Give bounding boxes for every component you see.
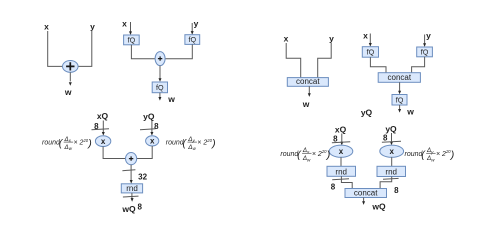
multiplier right	[146, 136, 159, 146]
wire x to concat	[286, 43, 301, 78]
svg-text:wQ: wQ	[371, 202, 386, 212]
multiplier right	[380, 145, 404, 157]
wire mult right to adder	[137, 146, 153, 159]
svg-text:rnd: rnd	[385, 168, 397, 177]
svg-text:8: 8	[137, 203, 142, 212]
svg-text:rnd: rnd	[126, 184, 138, 193]
wire adder to fQ out	[159, 66, 161, 80]
svg-text:w: w	[406, 107, 414, 117]
scale formula right	[166, 136, 216, 151]
wire x to fQ	[130, 22, 132, 33]
block fQ out	[392, 95, 407, 106]
svg-text:x: x	[44, 22, 49, 32]
wire mult right to rnd	[391, 157, 393, 166]
svg-text:concat: concat	[388, 73, 412, 82]
svg-text:fQ: fQ	[128, 35, 136, 44]
svg-text:y: y	[194, 19, 199, 29]
block fQ right	[417, 47, 433, 57]
svg-text:fQ: fQ	[396, 96, 404, 105]
svg-text:concat: concat	[296, 77, 320, 86]
svg-text:y: y	[329, 34, 334, 44]
wire y to concat	[318, 43, 332, 78]
block fQ out	[152, 82, 167, 93]
svg-text:wQ: wQ	[121, 204, 136, 214]
svg-text:xQ: xQ	[335, 125, 347, 135]
wire xQ to mult	[341, 134, 343, 144]
svg-text:fQ: fQ	[421, 48, 429, 57]
svg-text:yQ: yQ	[143, 112, 155, 122]
svg-text:8: 8	[154, 122, 159, 131]
wire xQ to mult	[102, 121, 104, 134]
wire rnd right to concat	[380, 177, 392, 189]
wire x to adder	[48, 31, 63, 66]
adder U1	[63, 61, 79, 73]
svg-text:x: x	[389, 147, 394, 156]
wire fQ right to adder	[165, 44, 192, 58]
svg-text:w: w	[167, 94, 175, 104]
scale formula left	[42, 136, 92, 151]
bus tick 32	[122, 170, 135, 171]
wire adder to w	[69, 72, 71, 81]
multiplier left	[329, 145, 353, 157]
adder U5	[126, 153, 137, 165]
svg-text:w: w	[302, 99, 310, 109]
bus tick	[92, 128, 110, 131]
wire fQ left to adder	[131, 45, 155, 59]
wire x to fQ	[369, 34, 371, 45]
svg-text:8: 8	[331, 182, 336, 191]
wire fQ right to concat	[412, 57, 425, 73]
wire mult left to rnd	[340, 157, 342, 166]
multiplier left	[95, 136, 110, 147]
svg-text:y: y	[90, 22, 95, 32]
wire fQ left to concat	[370, 57, 386, 72]
svg-text:8: 8	[383, 134, 388, 143]
bus tick	[332, 142, 350, 143]
svg-text:x: x	[284, 34, 289, 44]
block concat	[345, 189, 387, 198]
block rnd left	[327, 166, 356, 176]
wire y to fQ	[191, 23, 193, 33]
svg-text:xQ: xQ	[97, 111, 109, 121]
svg-text:y: y	[426, 31, 431, 41]
svg-text:x: x	[150, 137, 155, 146]
svg-text:yQ: yQ	[385, 124, 397, 134]
wire rnd left to concat	[341, 176, 352, 188]
svg-text:8: 8	[394, 186, 399, 195]
bus tick 8	[123, 195, 139, 198]
bus tick	[140, 128, 156, 131]
block concat	[378, 73, 420, 83]
scale formula left	[280, 147, 330, 162]
block rnd right	[377, 166, 406, 176]
adder U2	[155, 52, 165, 66]
svg-text:32: 32	[138, 173, 147, 182]
svg-text:fQ: fQ	[367, 48, 375, 57]
wire concat to wQ	[363, 198, 365, 203]
svg-text:fQ: fQ	[156, 83, 164, 92]
wire y to adder	[78, 31, 92, 66]
svg-text:x: x	[101, 137, 106, 146]
block fQ left	[362, 47, 378, 58]
wire fQ out to w	[399, 105, 401, 110]
block fQ left	[124, 35, 140, 45]
scale formula right	[405, 147, 455, 162]
block fQ right	[185, 35, 200, 45]
wire adder to rnd	[130, 165, 132, 182]
svg-text:rnd: rnd	[335, 167, 347, 176]
block concat	[287, 78, 328, 87]
svg-text:concat: concat	[354, 189, 378, 198]
svg-text:w: w	[64, 87, 72, 97]
wire fQ out to w	[159, 93, 161, 99]
bus tick	[382, 141, 401, 142]
wire concat to w	[308, 86, 310, 94]
block rnd	[121, 184, 142, 193]
svg-text:fQ: fQ	[189, 35, 197, 44]
svg-text:x: x	[363, 30, 368, 40]
wire yQ to mult	[391, 133, 393, 143]
bus tick left	[332, 178, 349, 181]
wire rnd to wQ	[131, 193, 133, 199]
svg-text:x: x	[339, 147, 344, 156]
wire yQ to mult	[151, 121, 153, 134]
svg-text:x: x	[122, 19, 127, 29]
wire concat to fQ out	[399, 82, 401, 92]
wire y to fQ	[424, 35, 426, 45]
bus tick right	[383, 177, 399, 180]
svg-text:yQ: yQ	[361, 108, 373, 118]
wire mult left to adder	[103, 147, 125, 159]
